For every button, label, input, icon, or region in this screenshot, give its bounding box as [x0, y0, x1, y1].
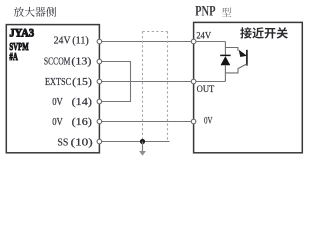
svg-text:SS: SS	[57, 138, 68, 149]
amplifier unit box JYA3 SVPM	[6, 25, 99, 153]
wire jumper SCCOM(13) to 0V(14)	[99, 62, 130, 102]
svg-text:(11): (11)	[72, 36, 89, 47]
proximity switch box	[194, 22, 303, 152]
wire 24V: JYA3 pin 11 to switch 24V	[99, 41, 225, 43]
emitter arrow into base bar	[239, 50, 247, 57]
junction: shield to SS wire	[140, 139, 145, 144]
pin terminal at (99.4,82)	[97, 79, 102, 84]
cable shield (dashed) top	[143, 31, 168, 33]
wire SS(10) shield drain	[99, 141, 169, 143]
diode anode lead	[224, 65, 226, 73]
pin terminal at (99.4,102)	[97, 99, 102, 104]
label 接近开关 (proximity switch)	[240, 27, 288, 38]
svg-text:(15): (15)	[72, 77, 92, 88]
diode cathode bar	[220, 54, 230, 56]
svg-text:OUT: OUT	[197, 84, 215, 95]
svg-text:EXTSC: EXTSC	[45, 77, 71, 88]
svg-text:24V: 24V	[54, 36, 72, 47]
wire EXTSC(15) to OUT	[99, 81, 225, 83]
switch terminal OUT	[191, 79, 196, 84]
svg-text:PNP: PNP	[195, 4, 216, 20]
svg-text:(13): (13)	[71, 56, 91, 67]
pin terminal at (99.4,141.7)	[97, 139, 102, 144]
pin terminal at (99.4,41.5)	[97, 39, 102, 44]
svg-text:0V: 0V	[204, 116, 213, 127]
collector branch to OUT	[225, 64, 247, 82]
emitter branch	[225, 48, 238, 51]
svg-text:(16): (16)	[72, 117, 92, 128]
cable shield (dashed) right side	[167, 32, 169, 142]
pin terminal at (99.4,122)	[97, 119, 102, 124]
ground symbol	[142, 142, 144, 152]
svg-text:(14): (14)	[72, 97, 92, 108]
svg-text:0V: 0V	[52, 97, 63, 108]
label 放大器侧 (amplifier side)	[14, 7, 56, 17]
pin terminal at (99.4,61.5)	[97, 59, 102, 64]
switch internal: 24V branch down to diode	[224, 42, 226, 56]
switch terminal 24V	[191, 39, 196, 44]
svg-text:JYA3: JYA3	[9, 25, 34, 39]
svg-text:24V: 24V	[196, 30, 211, 41]
wire 0V(16) to switch 0V	[99, 121, 193, 123]
transistor base bar	[246, 50, 248, 66]
svg-text:(10): (10)	[71, 138, 93, 149]
switch terminal 0V	[191, 119, 196, 124]
cable shield (dashed) left side	[142, 32, 144, 140]
diode (pointing up)	[221, 56, 231, 65]
svg-text:SCCOM: SCCOM	[44, 56, 71, 67]
svg-text:#A: #A	[9, 52, 18, 63]
svg-text:0V: 0V	[52, 117, 63, 128]
label 型	[222, 8, 232, 17]
